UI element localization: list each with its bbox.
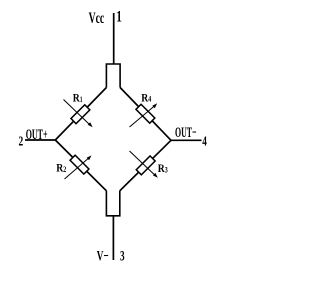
- resistor R3 body: [136, 156, 155, 175]
- wire: bottom-left arm: [55, 140, 106, 191]
- svg-text:Vcc: Vcc: [89, 10, 105, 27]
- resistor R4 body: [136, 104, 155, 123]
- svg-text:4: 4: [202, 135, 207, 150]
- resistor R1 arrow: [64, 100, 90, 125]
- resistor R2 arrow: [65, 158, 90, 179]
- wire: bottom-right arm: [120, 140, 171, 191]
- wire: V- lead (pin 3): [112, 216, 114, 260]
- svg-text:OUT−: OUT−: [175, 125, 197, 141]
- label R1: [73, 91, 83, 105]
- svg-text:2: 2: [19, 135, 24, 150]
- svg-text:2: 2: [63, 165, 66, 174]
- node top yoke: [106, 64, 120, 88]
- svg-text:3: 3: [120, 248, 125, 264]
- svg-text:4: 4: [148, 95, 151, 104]
- resistor R1 body: [71, 105, 90, 124]
- label R2: [56, 161, 66, 175]
- resistor R4 arrow: [130, 106, 156, 128]
- wire: top-left arm: [55, 88, 106, 141]
- resistor R3 arrow: [130, 151, 156, 175]
- wire: OUT+ lead (pin 2): [25, 139, 55, 141]
- svg-text:V−: V−: [97, 248, 109, 264]
- label R3: [158, 161, 168, 175]
- svg-text:1: 1: [116, 8, 122, 25]
- wire: OUT- lead (pin 4): [171, 139, 202, 141]
- svg-text:OUT+: OUT+: [26, 127, 48, 143]
- svg-text:3: 3: [165, 165, 168, 174]
- resistor R2 body: [70, 155, 89, 174]
- wire: Vcc lead (pin 1): [113, 13, 115, 64]
- wire: top-right arm: [120, 88, 171, 141]
- node bottom yoke: [106, 191, 119, 216]
- label R4: [141, 90, 151, 104]
- svg-text:1: 1: [80, 95, 83, 104]
